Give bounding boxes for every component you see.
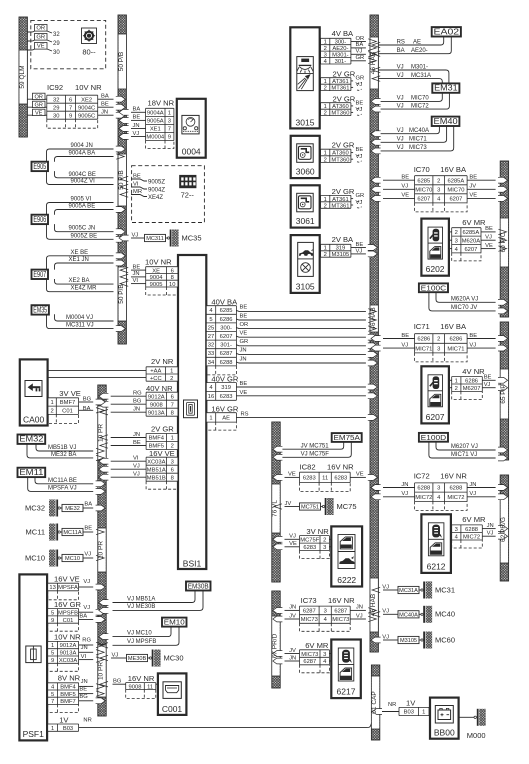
- svg-text:VJ: VJ: [382, 609, 389, 615]
- svg-text:ME32: ME32: [65, 506, 80, 512]
- connector IC73 16V NR: [300, 596, 356, 631]
- svg-text:MIC71: MIC71: [409, 137, 427, 143]
- connector 3V NR of 6222: [300, 527, 330, 559]
- svg-text:3: 3: [324, 609, 327, 615]
- svg-text:300-: 300-: [335, 40, 347, 46]
- svg-text:VJ MC10: VJ MC10: [127, 630, 152, 636]
- wire BE 6285A to 60P/C: [467, 175, 508, 184]
- connector 1V of PSF1: [48, 715, 92, 732]
- svg-text:6286: 6286: [417, 337, 430, 343]
- svg-text:6217: 6217: [337, 687, 356, 697]
- svg-text:VJ: VJ: [401, 342, 408, 348]
- window winder unit 6217: [331, 640, 361, 699]
- svg-text:E907: E907: [33, 270, 46, 279]
- svg-text:2: 2: [324, 157, 327, 163]
- svg-text:VJ: VJ: [132, 232, 139, 238]
- svg-text:VJ MC75F: VJ MC75F: [301, 452, 330, 458]
- svg-text:9005A: 9005A: [147, 119, 164, 125]
- svg-text:VE: VE: [35, 110, 43, 116]
- connector block icon 72--: [179, 175, 196, 200]
- wire BE BSI1 40V BA row 2 to 46HAB: [236, 313, 376, 322]
- svg-text:RG: RG: [133, 391, 142, 397]
- splice EM31: [371, 64, 459, 112]
- svg-text:8: 8: [171, 410, 174, 416]
- ground MC32 via ME32: [25, 500, 105, 517]
- svg-text:VJ: VJ: [484, 382, 491, 388]
- wire VI 9005 from 50P/B: [120, 278, 146, 286]
- svg-text:BE: BE: [469, 175, 477, 181]
- bus bar 62 PR/G: [500, 475, 508, 581]
- ground MC31 via MC31A: [372, 582, 455, 599]
- connector 3V VE of CA00: [48, 389, 81, 423]
- wire JN 6287 to 46HAB: [350, 605, 376, 613]
- svg-text:MB51B VJ: MB51B VJ: [48, 445, 76, 451]
- svg-text:C01: C01: [63, 618, 74, 624]
- svg-text:2: 2: [437, 337, 440, 343]
- svg-text:9004Z: 9004Z: [148, 187, 165, 193]
- svg-text:32: 32: [208, 343, 214, 349]
- wire label OR 32: [35, 25, 61, 39]
- svg-text:10 PR: 10 PR: [98, 541, 105, 559]
- svg-text:M0004: M0004: [146, 135, 165, 141]
- svg-text:XE1 JN: XE1 JN: [69, 257, 89, 263]
- bus bar 76 VL: [272, 422, 280, 582]
- wire BE 6285 from 46HAB: [371, 175, 415, 184]
- svg-text:BG: BG: [79, 694, 88, 700]
- svg-text:10: 10: [169, 282, 175, 288]
- svg-text:6: 6: [171, 268, 174, 274]
- svg-text:MB51A: MB51A: [147, 467, 166, 473]
- svg-text:JN: JN: [469, 482, 476, 488]
- svg-text:1: 1: [324, 79, 327, 85]
- svg-text:VJ: VJ: [83, 605, 90, 611]
- svg-text:VJ MPSFB: VJ MPSFB: [127, 639, 156, 645]
- wire 6V MR table to 6217: [329, 653, 331, 655]
- svg-text:18V NR: 18V NR: [148, 99, 175, 108]
- connector IC72 16V NR: [414, 472, 468, 511]
- svg-text:MC35: MC35: [182, 233, 202, 242]
- wire BA AE20- to 46HAB: [351, 42, 376, 50]
- svg-text:2: 2: [324, 252, 327, 258]
- svg-text:JV MC751: JV MC751: [301, 444, 330, 450]
- wire VE BSI1 40V BA row 4 to 46HAB: [236, 331, 377, 341]
- wire MR XE4Z: [120, 189, 163, 201]
- wire JN 6288 to 62PR/G: [467, 482, 508, 491]
- svg-text:XC03A: XC03A: [147, 459, 166, 465]
- svg-text:6V MR: 6V MR: [462, 218, 486, 227]
- svg-text:6283: 6283: [220, 394, 233, 400]
- svg-text:MT360: MT360: [331, 111, 349, 117]
- splice E907: [32, 250, 126, 292]
- svg-text:VJ: VJ: [485, 235, 492, 241]
- svg-text:6283: 6283: [334, 476, 347, 482]
- svg-text:BE: BE: [356, 147, 364, 153]
- wire B03 NR to battery bus: [79, 724, 372, 728]
- svg-text:VJ MB51A: VJ MB51A: [127, 596, 155, 602]
- svg-text:XE: XE: [152, 268, 160, 274]
- svg-text:6285A: 6285A: [463, 230, 480, 236]
- svg-text:7: 7: [168, 127, 171, 133]
- wire JN BSI1 40V BA row 7 to 46HAB: [236, 356, 377, 366]
- svg-text:MC40: MC40: [435, 610, 455, 619]
- wire VJ M3105 to 46HAB: [351, 248, 378, 256]
- wire BE BMF5 from 10PR: [100, 440, 146, 448]
- svg-text:VE: VE: [37, 44, 45, 50]
- svg-text:NR: NR: [388, 702, 396, 708]
- svg-text:VE: VE: [469, 193, 477, 199]
- svg-text:MC40A: MC40A: [399, 613, 418, 619]
- wire JN 6288 from 46HAB: [371, 482, 415, 491]
- svg-text:1: 1: [209, 416, 212, 422]
- svg-text:VE: VE: [240, 390, 248, 396]
- svg-text:9004C: 9004C: [78, 105, 95, 111]
- svg-text:9004 JN: 9004 JN: [71, 143, 93, 149]
- wire BE 319 to 46HAB: [236, 381, 377, 390]
- door lock unit 6207: [421, 366, 449, 423]
- svg-text:JV: JV: [469, 184, 476, 190]
- connector 2V GR of 3061: [321, 187, 365, 210]
- wire 59QLM to VE 30: [27, 48, 36, 51]
- svg-text:VJ: VJ: [469, 342, 476, 348]
- svg-text:GR: GR: [356, 55, 365, 61]
- wire VE 6207 to 60P/C: [467, 193, 508, 202]
- svg-text:VJ: VJ: [356, 613, 363, 619]
- svg-text:VJ: VJ: [356, 154, 363, 160]
- svg-text:AT361: AT361: [332, 79, 349, 85]
- svg-text:VE: VE: [288, 472, 296, 478]
- svg-text:BMF4: BMF4: [60, 685, 76, 691]
- connector 16V GR of PSF1: [48, 600, 105, 631]
- svg-text:ME30B: ME30B: [128, 656, 147, 662]
- svg-text:VE: VE: [240, 331, 248, 337]
- svg-text:XE1: XE1: [150, 127, 161, 133]
- svg-text:MC31: MC31: [435, 585, 455, 594]
- svg-text:2: 2: [324, 203, 327, 209]
- svg-text:BE: BE: [484, 375, 492, 381]
- wire VJ M301- to 46HAB: [351, 49, 376, 57]
- splice EM32: [18, 435, 105, 461]
- svg-text:8: 8: [171, 275, 174, 281]
- wire JN 6287 from 67PR/D: [273, 655, 300, 664]
- svg-text:VJ: VJ: [83, 579, 90, 585]
- connector 18V NR of 0004: [146, 99, 175, 149]
- engine fuse box PSF1: [19, 574, 47, 740]
- svg-text:VI: VI: [81, 654, 87, 660]
- connector 4V BA of 3015: [321, 29, 354, 65]
- svg-text:6207: 6207: [417, 197, 430, 203]
- svg-text:9005 VI: 9005 VI: [71, 197, 92, 203]
- svg-text:2: 2: [170, 376, 173, 382]
- wire JN XE1 from 50P/B: [119, 123, 146, 132]
- svg-text:VJ: VJ: [112, 652, 119, 658]
- svg-text:1V: 1V: [59, 715, 69, 724]
- svg-text:50 P/B: 50 P/B: [118, 170, 125, 190]
- svg-text:EM10: EM10: [164, 618, 185, 627]
- svg-text:MIC71: MIC71: [447, 346, 464, 352]
- bus bar 67 PR/D: [272, 591, 280, 688]
- svg-text:16V NR: 16V NR: [440, 472, 467, 481]
- svg-text:5: 5: [51, 651, 54, 657]
- svg-text:319: 319: [336, 246, 346, 252]
- svg-text:6V MR: 6V MR: [305, 641, 329, 650]
- svg-text:9: 9: [168, 135, 171, 141]
- svg-text:6286: 6286: [449, 337, 462, 343]
- wire VJ MIC71 from 46HAB: [371, 342, 415, 351]
- svg-text:AE: AE: [222, 416, 230, 422]
- svg-text:MIC71: MIC71: [415, 346, 432, 352]
- svg-text:301-: 301-: [335, 59, 347, 65]
- window winder unit 6212: [421, 514, 451, 573]
- wire VE 6283 to 46HAB: [350, 472, 377, 481]
- svg-text:3: 3: [455, 239, 458, 245]
- wire CA00 to +AA: [48, 369, 147, 371]
- svg-text:VJ: VJ: [397, 103, 404, 109]
- ground M000: [459, 709, 486, 740]
- wire OR 300- to 46HAB: [351, 36, 376, 44]
- svg-text:VJ: VJ: [382, 634, 389, 640]
- svg-text:50 P/B: 50 P/B: [118, 52, 125, 72]
- svg-text:VJ: VJ: [133, 464, 140, 470]
- svg-text:JN: JN: [133, 123, 140, 129]
- svg-text:B03: B03: [63, 726, 73, 732]
- svg-text:JN: JN: [133, 407, 140, 413]
- svg-text:3015: 3015: [296, 118, 315, 128]
- svg-text:MIC71 VJ: MIC71 VJ: [451, 452, 477, 458]
- wire JV MIC70 to 60P/C: [467, 184, 508, 193]
- svg-text:VE: VE: [401, 193, 409, 199]
- svg-text:NR: NR: [83, 718, 91, 724]
- svg-text:50 P/B: 50 P/B: [118, 284, 125, 304]
- svg-text:B03: B03: [404, 710, 414, 716]
- connector IC71 16V BA: [414, 322, 467, 362]
- wire VE 6283 from 76VL: [273, 472, 300, 481]
- wire JN BMF4 from 10PR: [100, 432, 146, 440]
- svg-text:2V NR: 2V NR: [151, 357, 174, 366]
- svg-text:76 VL: 76 VL: [272, 500, 279, 517]
- svg-text:MC11A BE: MC11A BE: [48, 478, 77, 484]
- svg-text:2: 2: [324, 86, 327, 92]
- wire JN IC92 to 50P/B: [98, 110, 126, 119]
- svg-text:9004A BA: 9004A BA: [69, 151, 96, 157]
- svg-text:6288: 6288: [220, 360, 233, 366]
- svg-text:GR: GR: [356, 75, 365, 81]
- connector 16V VE of PSF1: [48, 575, 105, 600]
- svg-text:16V BA: 16V BA: [440, 165, 467, 174]
- svg-text:6287: 6287: [220, 351, 233, 357]
- svg-text:VJ: VJ: [469, 491, 476, 497]
- svg-text:1: 1: [171, 436, 174, 442]
- svg-text:5: 5: [51, 611, 54, 617]
- svg-text:6V MR: 6V MR: [462, 515, 486, 524]
- connector 16V VE of BSI1: [146, 449, 178, 489]
- svg-text:AE20-: AE20-: [332, 46, 348, 52]
- svg-text:VJ: VJ: [487, 531, 494, 537]
- svg-text:XE BE: XE BE: [71, 250, 89, 256]
- svg-text:9005C: 9005C: [78, 113, 95, 119]
- svg-text:RS: RS: [397, 39, 405, 45]
- connector IC92 10V NR: [47, 83, 102, 128]
- svg-text:MC75F: MC75F: [300, 538, 319, 544]
- wire GR BSI1 40V BA row 5 to 46HAB: [236, 339, 377, 349]
- wire VJ MC75F from 76VL: [273, 534, 300, 543]
- svg-text:AT360: AT360: [332, 151, 349, 157]
- svg-text:6287: 6287: [334, 609, 347, 615]
- connector 4V NR of 6207: [449, 367, 485, 399]
- connector 2V GR of BSI1: [146, 425, 178, 450]
- svg-text:BE: BE: [401, 175, 409, 181]
- connector 2V GR of 3060: [321, 141, 364, 164]
- svg-text:VE: VE: [356, 472, 364, 478]
- svg-text:3: 3: [437, 486, 440, 492]
- svg-text:JN: JN: [356, 605, 363, 611]
- svg-text:M000: M000: [467, 731, 486, 740]
- svg-text:EM11: EM11: [19, 468, 44, 477]
- svg-text:JN: JN: [81, 679, 88, 685]
- svg-text:11: 11: [147, 684, 153, 690]
- svg-text:6207: 6207: [220, 334, 233, 340]
- svg-text:BMF7: BMF7: [60, 400, 75, 406]
- wire BE 6286 to 65P/P: [482, 375, 507, 384]
- svg-text:46 HAB: 46 HAB: [370, 307, 377, 329]
- svg-text:7: 7: [51, 699, 54, 705]
- svg-text:PSF1: PSF1: [23, 729, 45, 739]
- svg-text:1: 1: [324, 151, 327, 157]
- svg-text:6212: 6212: [427, 561, 446, 571]
- svg-text:29: 29: [53, 105, 59, 111]
- wire VJ MB51B from 10PR: [99, 472, 146, 481]
- svg-text:BA: BA: [133, 107, 141, 113]
- svg-text:MPSFB: MPSFB: [58, 611, 78, 617]
- svg-text:9005: 9005: [150, 282, 163, 288]
- connector IC70 16V BA: [414, 165, 467, 212]
- svg-text:9005Z: 9005Z: [148, 179, 165, 185]
- svg-text:40V BA: 40V BA: [211, 298, 238, 307]
- svg-text:MT360: MT360: [331, 157, 349, 163]
- svg-text:9004Z VI: 9004Z VI: [71, 179, 96, 185]
- svg-text:MC311 VJ: MC311 VJ: [66, 323, 94, 329]
- connector 16V GR of BSI1: [206, 404, 239, 430]
- splice E100D: [419, 433, 508, 461]
- svg-text:16V NR: 16V NR: [327, 463, 354, 472]
- svg-text:JV: JV: [289, 613, 296, 619]
- svg-text:30: 30: [53, 50, 60, 56]
- svg-text:MIC73: MIC73: [301, 652, 318, 658]
- svg-text:11: 11: [322, 476, 328, 482]
- wire JN 6288 to 62PR/G: [482, 523, 507, 532]
- svg-text:JN: JN: [487, 523, 494, 529]
- svg-text:XE4Z MR: XE4Z MR: [71, 286, 98, 292]
- svg-text:6: 6: [171, 467, 174, 473]
- svg-text:VJ: VJ: [356, 107, 363, 113]
- svg-text:MC31A: MC31A: [411, 73, 431, 79]
- svg-text:300-: 300-: [220, 325, 232, 331]
- wire GR to IC92 pin 29: [27, 101, 46, 108]
- svg-text:6287: 6287: [303, 609, 316, 615]
- bus bar 65 P/P: [500, 322, 508, 460]
- svg-text:2: 2: [324, 111, 327, 117]
- svg-text:VJ: VJ: [289, 534, 296, 540]
- svg-text:9: 9: [69, 113, 72, 119]
- svg-text:MC11A: MC11A: [63, 530, 82, 536]
- svg-text:34: 34: [208, 360, 215, 366]
- svg-text:MB51B: MB51B: [147, 475, 166, 481]
- svg-text:IC71: IC71: [414, 322, 430, 331]
- svg-text:XC03A: XC03A: [59, 658, 78, 664]
- svg-text:6207: 6207: [426, 412, 445, 422]
- svg-text:9013A: 9013A: [148, 410, 165, 416]
- svg-text:MC751: MC751: [301, 505, 319, 511]
- svg-text:MC10: MC10: [65, 556, 80, 562]
- svg-text:1: 1: [422, 710, 425, 716]
- svg-text:AT360: AT360: [332, 104, 349, 110]
- connector 6V MR of 6217: [300, 641, 330, 673]
- svg-text:GR: GR: [356, 193, 365, 199]
- svg-text:1: 1: [455, 379, 458, 385]
- diagnostic socket C001: [158, 673, 187, 715]
- wire label GR 29: [35, 34, 61, 48]
- connector 2V NR of BSI1: [146, 357, 178, 382]
- svg-text:MIC70: MIC70: [447, 188, 464, 194]
- cigar lighter 3061: [291, 185, 320, 227]
- wire BE 319 to 46HAB: [351, 242, 378, 251]
- svg-text:+CC: +CC: [150, 376, 162, 382]
- svg-text:EM32: EM32: [19, 435, 44, 444]
- svg-text:IC82: IC82: [300, 463, 316, 472]
- svg-text:2V GR: 2V GR: [151, 425, 174, 434]
- wire VJ MIC71 to 65P/P: [467, 342, 508, 351]
- svg-text:VE: VE: [485, 243, 493, 249]
- svg-text:1: 1: [324, 246, 327, 252]
- cigar lighter 3060: [291, 136, 320, 178]
- wire CA00 to +CC: [48, 377, 147, 379]
- wire BA IC92 to 50P/B: [98, 94, 126, 103]
- svg-text:6286: 6286: [465, 379, 478, 385]
- svg-text:MIC70 JV: MIC70 JV: [451, 305, 477, 311]
- svg-text:M301-: M301-: [411, 64, 428, 70]
- interior lamp unit 3015: [290, 27, 319, 128]
- svg-text:6: 6: [171, 394, 174, 400]
- connector 1V of BB00: [372, 699, 430, 716]
- wire VJ MB51A from 10PR: [99, 464, 146, 473]
- wire 3V NR table to 6222 pin 3: [329, 546, 331, 548]
- svg-text:AE20-: AE20-: [411, 48, 428, 54]
- ground MC35 via MC311: [119, 230, 202, 247]
- svg-text:VJ: VJ: [84, 551, 91, 557]
- wire VE 6283 from 76VL: [273, 541, 300, 550]
- svg-text:9: 9: [51, 658, 54, 664]
- dashed option box (top left): [31, 20, 106, 68]
- svg-text:1: 1: [50, 400, 53, 406]
- svg-text:46 HAB: 46 HAB: [370, 594, 377, 616]
- svg-text:GR: GR: [240, 339, 249, 345]
- svg-text:BE: BE: [240, 381, 248, 387]
- svg-text:E905: E905: [33, 162, 46, 171]
- svg-text:9005Z BE: 9005Z BE: [71, 233, 98, 239]
- splice E905: [32, 143, 126, 185]
- svg-text:60 P/C: 60 P/C: [500, 232, 507, 252]
- svg-text:MC11: MC11: [26, 527, 45, 536]
- svg-text:VJ: VJ: [382, 584, 389, 590]
- svg-text:16V GR: 16V GR: [211, 404, 239, 413]
- wire OR BSI1 40V BA row 3 to 46HAB: [236, 322, 376, 331]
- wire VJ M0004 from 50P/B: [119, 131, 146, 140]
- svg-text:BE: BE: [133, 173, 141, 179]
- svg-text:1: 1: [324, 197, 327, 203]
- connector 10V NR of PSF1: [48, 632, 104, 671]
- door lock unit 6202: [421, 219, 449, 276]
- svg-text:1: 1: [324, 40, 327, 46]
- svg-text:16V VE: 16V VE: [149, 449, 175, 458]
